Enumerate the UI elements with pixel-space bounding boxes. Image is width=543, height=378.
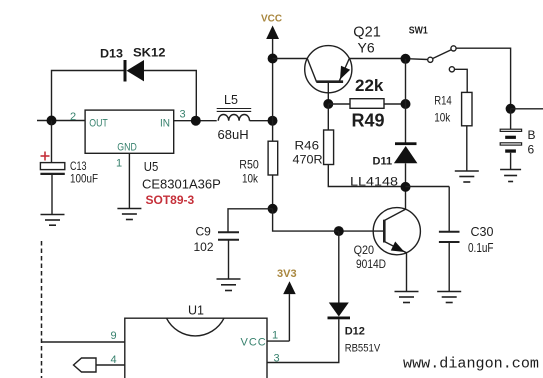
wire node to R49 left [328,103,350,105]
svg-text:Q20: Q20 [354,243,375,257]
battery B cell plate short 1 [505,136,516,139]
inductor L5 coil [218,114,249,120]
node A [47,116,57,126]
regulator U5 box [85,110,174,153]
wire node A up to D13 loop [52,71,124,121]
ground below C9 [217,279,241,291]
svg-text:R49: R49 [352,111,385,131]
node VCC branch to Q21 [268,54,278,64]
wire Q20 base [339,230,385,232]
svg-text:SK12: SK12 [133,46,166,60]
transistor Q20 circle [373,208,420,255]
node battery top [506,104,516,114]
transistor Q21 collector diagonal [307,59,316,82]
switch SW1 blade [433,50,452,59]
svg-text:R46: R46 [295,139,320,153]
wire node down to Q20 base wire [273,209,339,231]
wire D12 branch down [338,231,340,302]
capacitor C13 bottom plate [40,173,64,175]
wire C9 bottom [228,240,230,279]
diode D12 triangle [329,303,349,317]
svg-text:R50: R50 [239,158,259,172]
transistor Q21 base bar [316,80,343,83]
svg-text:0.1uF: 0.1uF [468,241,494,255]
svg-text:D11: D11 [373,156,393,168]
ground below R14 [455,171,479,182]
wire D12 bottom to pin3 wire [267,319,339,362]
battery B cell plate long 2 [500,143,521,145]
svg-text:9014D: 9014D [356,257,386,271]
svg-text:B: B [528,128,536,142]
wire C13 bottom [51,174,53,215]
capacitor C13 plus sign [41,152,50,161]
wire IN pin to L5 [174,120,217,122]
switch SW1 top contact circle [451,46,456,51]
svg-text:C30: C30 [471,225,494,239]
battery B cell plate long 1 [500,129,521,131]
svg-text:3: 3 [274,353,280,365]
wire D13 cathode loop right side [144,71,196,121]
ground below battery [500,170,521,182]
wire D11 bottom to Q20 collector [405,163,407,209]
transistor Q21 emitter diagonal [339,59,349,82]
resistor R50 [268,141,278,175]
node D11 bottom [401,182,411,192]
wire VCC node to Q21 emitter-left [273,58,308,60]
VCC arrow [266,26,279,40]
capacitor C13 top plate box [40,163,64,170]
svg-text:2: 2 [70,111,76,123]
svg-text:SOT89-3: SOT89-3 [146,193,195,207]
wire battery bottom [510,153,512,170]
svg-text:R14: R14 [434,94,452,108]
3V3 arrow stem [288,294,290,341]
wire Q20 emitter down [406,253,408,292]
svg-text:L5: L5 [224,93,238,107]
diode D11 cathode bar [395,142,417,145]
svg-text:VCC: VCC [261,13,282,25]
svg-text:10k: 10k [242,172,259,186]
resistor R14 [462,92,472,125]
svg-text:100uF: 100uF [70,172,98,186]
switch SW1 contact circle left [410,58,428,61]
svg-text:470R: 470R [293,153,323,167]
battery B cell plate short 2 [505,149,516,152]
switch SW1 lower contact circle [449,67,454,72]
connector pin 4 tag [74,358,97,372]
svg-text:9: 9 [111,330,117,342]
wire R46 bottom to D11 node [328,165,405,187]
diode D13 cathode bar [124,60,127,82]
capacitor C30 plates [439,231,460,233]
svg-text:VCC: VCC [241,337,267,349]
wire VCC down rail [272,39,274,141]
node R50 bottom [268,204,278,214]
svg-text:GND: GND [117,142,137,154]
wire C30 down to top plate [448,187,450,232]
svg-text:4: 4 [111,354,117,366]
node Q21 base / R49 / R46 [323,99,333,109]
wire R49 right to node [384,103,406,105]
wire R46 top [327,104,329,130]
wire battery node to right edge [511,108,543,110]
svg-text:SW1: SW1 [409,26,428,37]
svg-text:1: 1 [272,330,278,342]
wire lower contact to R14 [455,69,468,92]
wire Q21 base down [327,82,329,104]
wire left stub to node A [37,120,85,122]
node Q20 base / D12 [334,226,344,236]
resistor R46 [324,130,334,165]
wire R14 bottom [466,126,468,171]
diode D12 cathode bar [328,317,351,320]
svg-text:D12: D12 [345,326,365,338]
wire node to C9 [228,209,273,233]
IC U1 notch [167,318,225,336]
svg-text:U1: U1 [188,304,204,318]
inductor L5 core lines [217,108,252,110]
svg-text:OUT: OUT [89,118,108,130]
wire U1 pin 9 [42,341,125,343]
node R49 right [401,99,411,109]
svg-text:6: 6 [528,143,535,157]
svg-text:3: 3 [180,109,186,121]
wire U5 GND down [128,153,130,208]
dashed boundary line [41,241,43,378]
svg-text:IN: IN [160,118,170,130]
svg-text:10k: 10k [434,111,451,125]
node SW1 left [401,54,411,64]
transistor Q20 emitter diagonal [384,242,406,253]
IC U1 box [125,318,267,378]
wire Q21 right to SW node [349,58,405,60]
node at IN pin [191,116,201,126]
svg-text:22k: 22k [355,76,384,95]
wire SW node down through D11 [405,59,407,143]
svg-text:C9: C9 [196,225,212,239]
capacitor C9 plates [218,231,239,233]
svg-text:3V3: 3V3 [277,268,297,280]
ground below C13 [41,215,65,226]
wire U1 pin 4 [96,364,125,366]
transistor Q20 emitter arrow [391,242,405,253]
svg-text:U5: U5 [144,159,159,174]
wire C13 top [51,121,53,163]
node L5 right / VCC rail [268,116,278,126]
svg-text:Y6: Y6 [358,40,375,56]
resistor R49 [350,99,384,109]
ground below U5 [117,209,141,220]
3V3 arrow head [283,281,296,294]
wire U1 pin 1 to 3V3 [267,340,289,342]
wire node to C30 [406,186,450,188]
svg-text:102: 102 [194,240,214,254]
svg-text:www.diangon.com: www.diangon.com [403,356,539,373]
diode D11 triangle [394,146,418,163]
svg-text:RB551V: RB551V [345,343,381,355]
transistor Q21 circle [305,46,352,93]
svg-text:68uH: 68uH [218,127,249,142]
ground below C30 [437,292,461,303]
wire C30 bottom [448,242,450,292]
diode D13 triangle [127,60,145,81]
transistor Q21 emitter arrow [340,66,350,80]
wire L5 to VCC rail node [250,120,273,122]
svg-text:1: 1 [116,158,122,170]
svg-text:CE8301A36P: CE8301A36P [142,177,221,192]
svg-text:D13: D13 [100,47,123,61]
svg-text:LL4148: LL4148 [350,175,398,189]
wire SW1 to battery top [456,48,511,109]
svg-text:Q21: Q21 [353,24,381,41]
ground below Q20 [395,292,419,303]
wire battery node down [510,109,512,129]
transistor Q20 base bar [383,220,386,243]
transistor Q20 collector diagonal [384,209,405,220]
wire R50 bottom to node [272,175,274,209]
